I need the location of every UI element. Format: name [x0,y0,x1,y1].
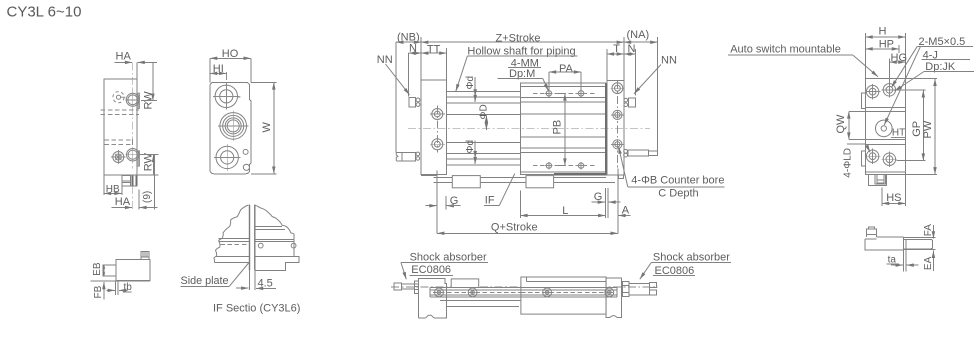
svg-text:HA: HA [115,196,131,208]
right screws centerline [616,81,618,170]
carriage screw BR [578,163,583,168]
svg-text:4-ΦB Counter bore: 4-ΦB Counter bore [631,174,724,186]
left rod [401,284,414,289]
left rod tip [394,283,401,290]
bolt [866,227,876,237]
rail inner lines [430,290,617,295]
svg-text:IF Sectio (CY3L6): IF Sectio (CY3L6) [213,303,300,315]
svg-text:W: W [261,122,273,133]
bottom line [91,280,150,282]
svg-text:H: H [879,26,887,38]
bottom thick bars [132,176,136,186]
nose [103,265,116,276]
svg-text:RW: RW [142,153,154,172]
torn edge right [255,205,294,234]
port bottom-right [883,153,895,165]
svg-text:GP: GP [911,121,923,137]
carriage top lip [526,277,606,281]
rail bar [430,288,617,298]
svg-text:HA: HA [116,51,132,63]
right end block [607,80,624,174]
left block screw upper [432,109,443,120]
svg-text:Q+Stroke: Q+Stroke [491,221,538,233]
small hole right-bottom [243,164,249,170]
left upper nut square [409,98,416,108]
carriage screw TR [578,91,583,96]
carriage screw TL [546,91,551,96]
svg-text:CY3L 6~10: CY3L 6~10 [7,4,82,21]
svg-text:ΦD: ΦD [479,104,490,119]
rail dash centerline [433,291,613,293]
svg-text:C Depth: C Depth [658,188,698,200]
bolt holes [258,243,263,248]
svg-text:(NB): (NB) [397,31,420,43]
center dash lines middle [101,110,140,114]
svg-text:NN: NN [661,55,677,67]
plate left double edge [903,237,906,271]
right block screw low [613,140,622,149]
tube lines below [440,301,526,307]
port circle top-left (dashed thread) [113,92,124,103]
svg-text:Φd: Φd [465,140,476,154]
body [865,237,903,250]
svg-text:Shock absorber: Shock absorber [653,251,730,263]
right absorber flange [622,281,629,296]
left part horizontals [214,238,249,262]
foot pad left [452,176,480,188]
side tab lower [862,151,866,166]
bolt on top [141,252,149,260]
svg-text:4.5: 4.5 [258,277,273,289]
svg-text:EA: EA [923,256,934,270]
svg-text:PW: PW [922,120,934,138]
carriage outline [520,83,605,174]
svg-text:N: N [628,43,636,55]
ext lines FA/EA [904,238,936,250]
tick between dash rows [131,139,133,145]
side plate strip [250,205,255,271]
left upper nut rings [416,98,420,102]
body outline [210,82,251,174]
pad on rail [451,279,479,288]
vertical centerline through right screws [132,62,134,210]
right absorber flange rings [624,149,628,153]
right absorber tip [649,151,658,155]
left lower rod body [396,152,415,161]
screw bottom-left [113,152,124,163]
right upper nut rings [624,98,628,102]
carriage internal lines [520,98,605,172]
small hole right-mid [243,149,248,154]
right edge and steps [255,234,299,270]
svg-text:4-ΦLD: 4-ΦLD [843,148,854,178]
port top-left [866,85,878,97]
screw bottom-right [127,149,139,161]
left lower rod rings [416,152,420,156]
svg-text:Auto switch mountable: Auto switch mountable [730,44,841,56]
bottom rail lines [434,177,616,182]
leader/arrow to plate [236,287,248,289]
internal horizontal double lines upper [865,108,905,112]
body outline [104,79,137,175]
hollow shaft circle HT [876,120,893,137]
internal horizontal double lines lower [865,140,905,145]
carriage bottom thick [554,173,607,175]
left end block [421,80,446,175]
centerline [391,286,658,288]
foot bracket [868,174,886,185]
right block [606,278,621,317]
svg-text:HS: HS [886,192,901,204]
svg-text:QW: QW [835,114,847,134]
hidden dash rows [105,140,132,145]
rail screw 1 [435,288,444,297]
carriage body [521,277,606,314]
left block [419,279,447,318]
body outline [865,79,905,175]
left dashed line [221,243,249,245]
svg-text:EB: EB [92,262,103,276]
upper shaft lines [447,92,521,103]
svg-text:PA: PA [559,63,574,75]
screw top-right [126,93,139,106]
left edge extension down [104,175,122,195]
foot pad right [526,176,554,188]
right absorber tip [650,283,657,288]
svg-text:(9): (9) [142,191,153,203]
left screws centerline [436,106,438,153]
svg-text:Side plate: Side plate [181,275,229,287]
right block screw mid [613,110,622,119]
left block bottom step [421,176,437,178]
side tab upper [862,93,866,108]
port bottom-left [866,150,878,162]
svg-text:(NA): (NA) [627,29,650,41]
svg-text:IF: IF [485,195,495,207]
side plate tab upper (gray) [137,93,140,108]
port top-right [883,84,895,96]
main body [116,259,150,280]
circle bottom [216,146,238,168]
svg-text:G: G [594,191,603,203]
rail screw 2 [468,288,477,297]
side plate tab lower (gray) [137,151,140,166]
plate [903,240,932,249]
circle middle [220,113,247,140]
svg-text:NN: NN [377,54,393,66]
right part horizontals [255,226,294,241]
right absorber body [629,284,650,295]
svg-text:Shock absorber: Shock absorber [410,251,487,263]
svg-text:PB: PB [552,120,564,135]
extension verticals top [396,37,657,153]
rail screw 3 [543,288,552,297]
rod break zigzag [396,152,398,161]
lower shaft lines [447,154,521,165]
rail across carriage [521,288,617,298]
left rings [415,281,419,294]
tube outer lines [447,115,521,143]
svg-text:Φd: Φd [465,76,476,90]
svg-text:EC0806: EC0806 [411,264,451,276]
carriage top line [520,86,605,88]
svg-text:T: T [613,43,620,55]
main centerline [408,127,650,129]
dot right of top circle [238,96,241,98]
right absorber body [628,150,649,156]
svg-text:A: A [622,205,630,217]
svg-text:FA: FA [923,224,934,237]
rail screw 4 [605,288,614,297]
left block screw lower [432,139,443,150]
carriage screw dash lines [533,93,596,165]
carriage screw BL [546,163,551,168]
circle top [215,85,237,107]
bottom tab (H shape) [122,176,131,186]
internal line near bottom [865,171,905,173]
right upper nut square [628,98,635,107]
right block screw top [612,83,623,94]
bottom base line [122,185,138,187]
right block inner edge thick [605,83,607,175]
torn edge left [214,205,249,262]
svg-text:TT: TT [427,44,441,56]
right block bottom step [618,175,623,179]
svg-text:FB: FB [93,285,104,298]
